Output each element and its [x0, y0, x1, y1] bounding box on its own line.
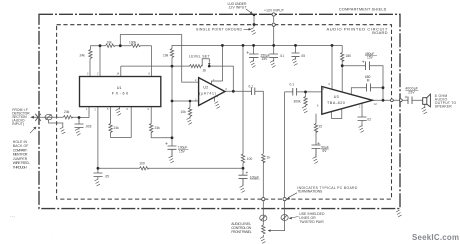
svg-text:1k: 1k [267, 156, 271, 160]
svg-text:TWISTED PAIR: TWISTED PAIR [299, 220, 324, 224]
svg-text:0.1: 0.1 [290, 83, 295, 87]
svg-text:.003: .003 [85, 125, 92, 129]
svg-text:LEVEL SET: LEVEL SET [189, 55, 210, 59]
svg-text:(μA741): (μA741) [199, 91, 216, 95]
svg-text:24k: 24k [64, 110, 70, 114]
svg-text:BOARD: BOARD [372, 30, 387, 35]
svg-text:.05: .05 [301, 54, 306, 58]
svg-text:+12V INPUT: +12V INPUT [264, 8, 284, 12]
svg-text:FRONT PANEL: FRONT PANEL [231, 230, 252, 234]
svg-text:180: 180 [346, 54, 352, 58]
svg-text:.: . [52, 236, 53, 242]
svg-text:..,: .., [10, 213, 15, 219]
svg-text:COMPARTMENT SHIELD: COMPARTMENT SHIELD [339, 8, 387, 12]
svg-text:15V: 15V [179, 150, 186, 154]
svg-text:24k: 24k [114, 126, 120, 130]
svg-text:25V: 25V [408, 91, 415, 95]
svg-text:22: 22 [319, 125, 323, 129]
svg-text:300k: 300k [294, 100, 301, 104]
svg-text:.02: .02 [367, 117, 372, 121]
svg-text:SINGLE POINT GROUND: SINGLE POINT GROUND [196, 28, 242, 32]
svg-text:10k: 10k [163, 54, 169, 58]
svg-text:15V: 15V [262, 57, 269, 61]
svg-text:100k: 100k [129, 41, 136, 45]
svg-text:24k: 24k [80, 54, 86, 58]
svg-text:24k: 24k [155, 126, 161, 130]
svg-text:U2: U2 [203, 85, 208, 89]
svg-text:M: M [367, 78, 370, 82]
svg-text:.01: .01 [280, 54, 285, 58]
svg-text:12V INPUT: 12V INPUT [229, 6, 247, 10]
svg-text:.05: .05 [105, 175, 110, 179]
svg-text:0.1: 0.1 [249, 85, 254, 89]
svg-text:U3: U3 [334, 95, 339, 99]
svg-text:10k: 10k [107, 41, 113, 45]
svg-text:INPUT): INPUT) [12, 122, 24, 126]
svg-text:TBA-820: TBA-820 [327, 101, 345, 105]
svg-text:100: 100 [139, 161, 145, 165]
svg-text:2k: 2k [203, 68, 207, 72]
svg-text:100μF: 100μF [250, 175, 259, 179]
svg-text:U1: U1 [117, 86, 122, 90]
svg-text:SeekIC.com: SeekIC.com [412, 233, 459, 242]
svg-text:100: 100 [247, 157, 253, 161]
svg-text:THROUGH: THROUGH [13, 165, 27, 169]
svg-text:10k: 10k [181, 110, 187, 114]
svg-text:SPEAKER: SPEAKER [435, 104, 452, 108]
svg-text:TERMINATIONS: TERMINATIONS [297, 190, 323, 194]
svg-text:15V: 15V [367, 56, 374, 60]
